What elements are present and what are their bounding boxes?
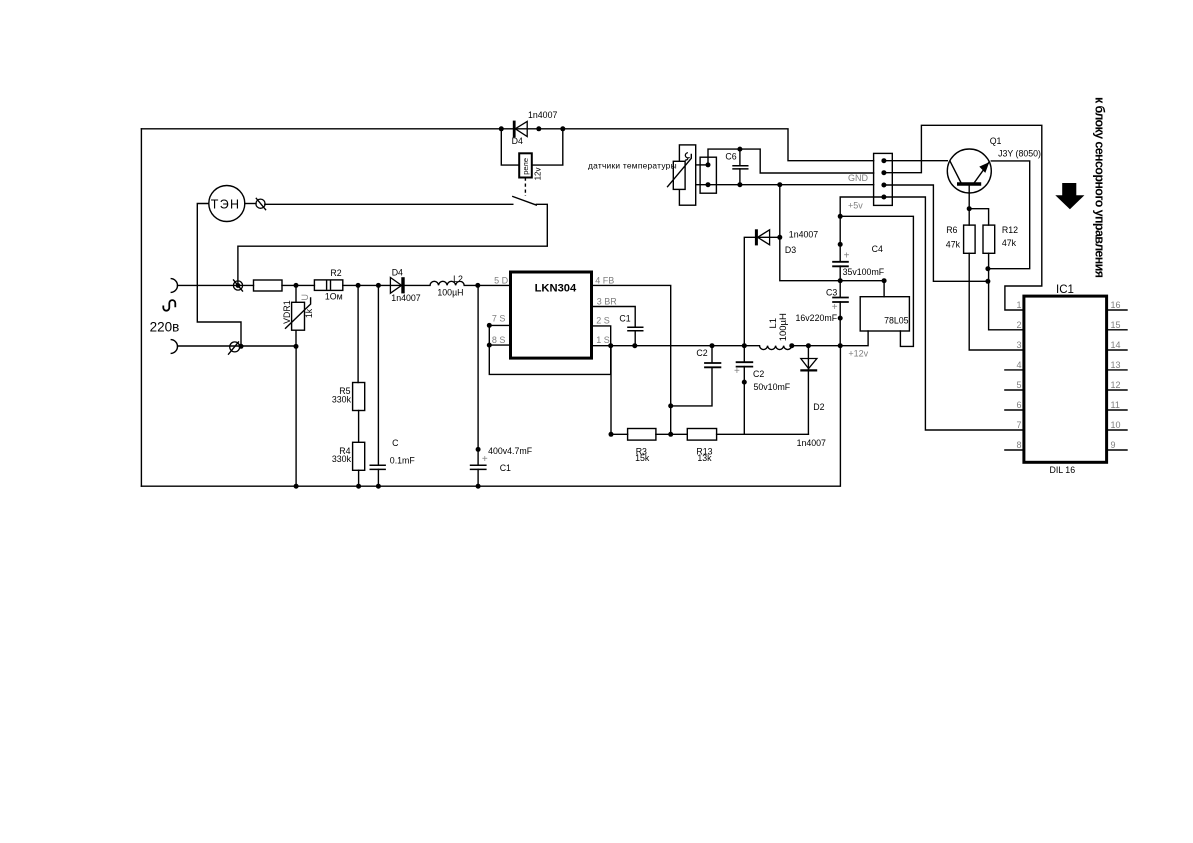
capacitor C2 ceramic (671, 346, 722, 406)
capacitor C2 50v10mF (736, 346, 754, 435)
node pin a of X1 (706, 162, 711, 167)
wire IC1 pin4 stub (1005, 369, 1024, 371)
capacitor C1 (boost) (627, 327, 643, 346)
wire IC1 pin10 stub (1107, 429, 1127, 431)
wire TEN left lead down to neutral (197, 204, 241, 347)
wire pin2 S down (592, 326, 611, 346)
svg-text:+5v: +5v (848, 201, 863, 211)
node junction rail pin2 (608, 343, 613, 348)
svg-text:4: 4 (1016, 360, 1021, 370)
svg-text:R2: R2 (330, 268, 341, 278)
svg-text:DIL 16: DIL 16 (1050, 465, 1076, 475)
wire pin4 X2 to IC1 pin7 (884, 197, 1024, 430)
node junction on top rail right of D4 (536, 126, 541, 131)
wire pin7 stub (489, 324, 510, 326)
node junction R3 R13 FB (668, 432, 673, 437)
svg-text:5 D: 5 D (494, 276, 509, 286)
node junction on top rail at relay right branch (560, 126, 565, 131)
resistor R13 (687, 429, 808, 441)
wire R2 to D4 (343, 284, 430, 286)
node junction at R5 divider top (356, 283, 361, 288)
svg-text:35v100mF: 35v100mF (843, 267, 885, 277)
node junction on C1 lead (476, 447, 481, 452)
svg-text:12: 12 (1111, 380, 1121, 390)
IC IC1 DIL16 (1024, 296, 1107, 462)
node junction neutral at TEN branch (239, 344, 244, 349)
node junction D3 anode (777, 235, 782, 240)
wire rail to R3 (610, 346, 612, 435)
diode D3 (744, 229, 780, 345)
wire source pins loop under IC (489, 325, 610, 374)
node junction sensor GND branch (777, 182, 782, 187)
svg-text:1n4007: 1n4007 (528, 110, 557, 120)
svg-text:U: U (300, 294, 310, 301)
svg-text:R6: R6 (946, 225, 957, 235)
wire IC1 pin13 stub (1107, 369, 1127, 371)
wire pin4 FB to feedback divider (592, 285, 671, 434)
svg-text:13: 13 (1111, 360, 1121, 370)
svg-text:12v: 12v (534, 167, 543, 180)
resistor R6 (964, 209, 1024, 350)
node junction C1 at bottom border (476, 484, 481, 489)
svg-text:4 FB: 4 FB (595, 276, 614, 286)
node junction C6 bottom (737, 182, 742, 187)
svg-text:13k: 13k (697, 453, 712, 463)
node junction R12 bottom b (985, 279, 990, 284)
thermistor element (667, 154, 691, 190)
screw terminal on live wire (233, 280, 242, 291)
svg-text:1k: 1k (304, 308, 314, 318)
svg-text:C6: C6 (725, 152, 736, 162)
resistor R3 (611, 429, 687, 441)
resistor R2 (fusible) (314, 280, 342, 291)
svg-text:47k: 47k (1002, 238, 1017, 248)
IC U1 LKN304 (511, 272, 592, 358)
varistor VDR1 (285, 285, 311, 346)
screw terminal at TEN (256, 198, 266, 209)
node junction rail D2 (806, 343, 811, 348)
node pin4 X2 (881, 195, 886, 200)
wire pin3 X2 GND to R12 bottom (884, 185, 988, 281)
wire pin8 stub (489, 344, 510, 346)
capacitor C1 400v4.7mF (470, 285, 487, 486)
connector X1 2pin (700, 157, 716, 193)
svg-text:+: + (734, 366, 740, 377)
svg-text:78L05: 78L05 (884, 316, 909, 326)
svg-text:LKN304: LKN304 (535, 283, 577, 295)
node junction C3 lead (838, 316, 843, 321)
wire R5 to R4 (358, 411, 360, 443)
wire fuse to R2 (282, 284, 314, 286)
svg-text:6: 6 (1016, 400, 1021, 410)
diode D2 (800, 346, 817, 435)
svg-text:8: 8 (1016, 440, 1021, 450)
wire from TEN screw to switch left contact (265, 203, 513, 205)
svg-text:16v220mF: 16v220mF (796, 313, 838, 323)
svg-text:ТЭН: ТЭН (211, 197, 241, 211)
svg-text:1: 1 (1016, 300, 1021, 310)
AC sine symbol (163, 300, 175, 311)
wire 78L05 output to +5v junction (840, 216, 913, 346)
node junction L1 right (789, 343, 794, 348)
svg-text:J3Y (8050): J3Y (8050) (998, 148, 1041, 158)
node pin3 X2 (881, 183, 886, 188)
wire neutral down to bottom border (295, 346, 297, 486)
node pin2 X2 (881, 170, 886, 175)
svg-text:реле: реле (521, 158, 530, 175)
svg-text:+: + (832, 302, 838, 313)
svg-text:3 BR: 3 BR (597, 297, 618, 307)
svg-text:330k: 330k (332, 394, 352, 404)
svg-text:+: + (844, 251, 850, 262)
svg-text:D2: D2 (813, 402, 824, 412)
wire TEN right lead (245, 203, 256, 205)
node junction at C1 input cap (475, 283, 480, 288)
svg-text:15k: 15k (635, 453, 650, 463)
wire divider chain down R5 R4 (357, 285, 359, 382)
svg-text:GND: GND (848, 173, 869, 183)
svg-text:C4: C4 (872, 244, 883, 254)
wire pin2 X2 to frame top (884, 125, 1042, 310)
wire relay right branch (532, 129, 563, 165)
inductor L1 (760, 346, 792, 350)
AC source terminal upper arc (171, 279, 178, 293)
svg-text:100µH: 100µH (778, 313, 789, 341)
svg-text:11: 11 (1111, 400, 1120, 410)
node pin1 X2 (881, 158, 886, 163)
svg-text:+12v: +12v (848, 348, 868, 358)
wire IC1 pin16 stub (1107, 309, 1127, 311)
AC source terminal lower arc (171, 340, 178, 354)
wire emitter to R12 top (969, 209, 988, 225)
svg-text:9: 9 (1111, 440, 1116, 450)
node junction 78L05 input (882, 278, 887, 283)
wire IC1 pin15 stub (1107, 329, 1127, 331)
wire pin1 X2 to Q1 base (884, 160, 947, 162)
capacitor C4 35v100mF (832, 216, 849, 280)
wire IC1 pin6 stub (1005, 409, 1024, 411)
svg-text:3: 3 (1016, 340, 1021, 350)
wire Q1 right to R12 bottom (988, 161, 1030, 269)
wire IC1 pin8 stub (1005, 449, 1024, 451)
wire left border vertical (140, 129, 142, 486)
temperature sensor housing (679, 145, 695, 205)
wire IC1 pin5 stub (1005, 389, 1024, 391)
wire sensor upper to C6 and connector pin2 (708, 149, 874, 173)
heater TEN circle (209, 186, 245, 222)
svg-text:датчики температуры: датчики температуры (588, 161, 677, 171)
wire IC1 pin12 stub (1107, 389, 1127, 391)
svg-text:330k: 330k (332, 454, 352, 464)
svg-text:47k: 47k (946, 240, 961, 250)
node junction rail C2 ceramic (710, 343, 715, 348)
resistor R12 (983, 225, 1024, 330)
node junction rail C2 el (742, 343, 747, 348)
svg-text:C2: C2 (696, 348, 707, 358)
resistor R5 (353, 383, 365, 411)
svg-text:1n4007: 1n4007 (789, 229, 818, 239)
svg-text:D4: D4 (512, 136, 523, 146)
wire sensor lower lead (696, 184, 874, 186)
inductor L2 (430, 281, 464, 285)
node pin b of X1 (706, 182, 711, 187)
screw terminal on neutral wire (229, 342, 240, 354)
svg-text:1n4007: 1n4007 (797, 438, 826, 448)
wire live from source to fuse (178, 284, 254, 286)
svg-text:C2: C2 (753, 369, 764, 379)
node junction C2 lead (742, 380, 747, 385)
node junction R4 at bottom border (356, 484, 361, 489)
svg-text:D4: D4 (392, 267, 403, 277)
svg-text:C: C (392, 438, 399, 448)
wire from switch right contact down and left to mains screw (238, 204, 547, 285)
svg-text:7: 7 (1016, 420, 1021, 430)
wire sensor upper lead (696, 164, 708, 166)
node junction pin7 (487, 323, 492, 328)
arrow to sensor control block (1055, 183, 1084, 209)
diode D4 (top, relay flyback) (514, 121, 527, 138)
wire IC1 pin11 stub (1107, 409, 1127, 411)
node junction C at bottom border (376, 484, 381, 489)
relay coil K1 (519, 153, 532, 177)
wire sensor line down through D3 node to 78L05 input (780, 185, 884, 297)
label t (685, 153, 690, 160)
svg-text:400v4.7mF: 400v4.7mF (488, 446, 533, 456)
node junction neutral at VDR1 bottom (294, 344, 299, 349)
regulator 78L05 (860, 297, 909, 331)
connector X2 4pin (874, 153, 893, 205)
svg-text:1n4007: 1n4007 (391, 293, 420, 303)
svg-text:+: + (482, 454, 488, 465)
node junction R12 bottom a (985, 266, 990, 271)
node junction at VDR1 top (294, 283, 299, 288)
svg-text:50v10mF: 50v10mF (754, 382, 791, 392)
switch S1 (relay contact) blade (513, 197, 537, 206)
wire bottom border (141, 346, 840, 486)
wire R4 to bottom border (358, 470, 360, 486)
wire L2 to LKN304 pin5 (464, 284, 510, 286)
node junction FB to C2 link (668, 403, 673, 408)
svg-text:8 S: 8 S (492, 335, 506, 345)
svg-text:1Ом: 1Ом (325, 291, 343, 301)
node junction rail C1 (632, 343, 637, 348)
svg-text:1 S: 1 S (596, 335, 610, 345)
node junction pin8 (487, 343, 492, 348)
node junction C6 top (737, 147, 742, 152)
svg-text:D3: D3 (785, 245, 796, 255)
node junction on top rail left of D4 (499, 126, 504, 131)
svg-text:C1: C1 (500, 463, 511, 473)
svg-text:100µH: 100µH (437, 288, 463, 298)
node junction C4 bottom (838, 278, 843, 283)
svg-text:C1: C1 (619, 314, 630, 324)
svg-text:L2: L2 (453, 274, 463, 284)
node junction rail C3 branch (838, 343, 843, 348)
svg-text:C3: C3 (826, 288, 837, 298)
svg-text:0.1mF: 0.1mF (390, 456, 416, 466)
node junction +5v (838, 214, 843, 219)
svg-text:5: 5 (1016, 380, 1021, 390)
capacitor C3 16v220mF (832, 281, 849, 346)
node junction neutral at bottom border (294, 484, 299, 489)
wire relay left branch (501, 129, 519, 165)
wire pin1 S rail to 78L05 (592, 331, 869, 346)
wire neutral from source to corner (178, 345, 297, 347)
svg-text:2 S: 2 S (596, 315, 610, 325)
svg-text:VDR1: VDR1 (282, 300, 292, 324)
wire IC1 pin9 stub (1107, 449, 1127, 451)
svg-text:IC1: IC1 (1056, 284, 1074, 296)
resistor R4 (353, 442, 365, 470)
svg-text:к блоку сенсорного управления: к блоку сенсорного управления (1093, 97, 1107, 278)
wire IC1 pin14 stub (1107, 349, 1127, 351)
svg-text:7 S: 7 S (492, 313, 506, 323)
node junction Q1 emitter (967, 206, 972, 211)
diode D4 (rectifier) (390, 277, 403, 293)
capacitor C6 (732, 149, 748, 185)
svg-text:R12: R12 (1002, 225, 1018, 235)
node junction R3 left (609, 432, 614, 437)
transistor Q1 (947, 149, 991, 209)
svg-text:15: 15 (1111, 320, 1121, 330)
svg-text:Q1: Q1 (990, 136, 1002, 146)
capacitor C 0.1mF (370, 285, 386, 486)
svg-text:16: 16 (1111, 300, 1121, 310)
svg-text:14: 14 (1111, 340, 1121, 350)
svg-text:10: 10 (1111, 420, 1121, 430)
wire top rail from left border corner to right (141, 129, 873, 161)
node junction at C filter top (376, 283, 381, 288)
fuse F1 (254, 280, 283, 291)
wire dashed relay actuator link (524, 178, 526, 197)
svg-text:220в: 220в (150, 319, 180, 334)
wire pin4 X2 +5v branch left (840, 197, 884, 216)
node junction C4 top lead (838, 242, 843, 247)
wire pin3 BR to C1 (592, 307, 636, 327)
svg-text:2: 2 (1016, 320, 1021, 330)
